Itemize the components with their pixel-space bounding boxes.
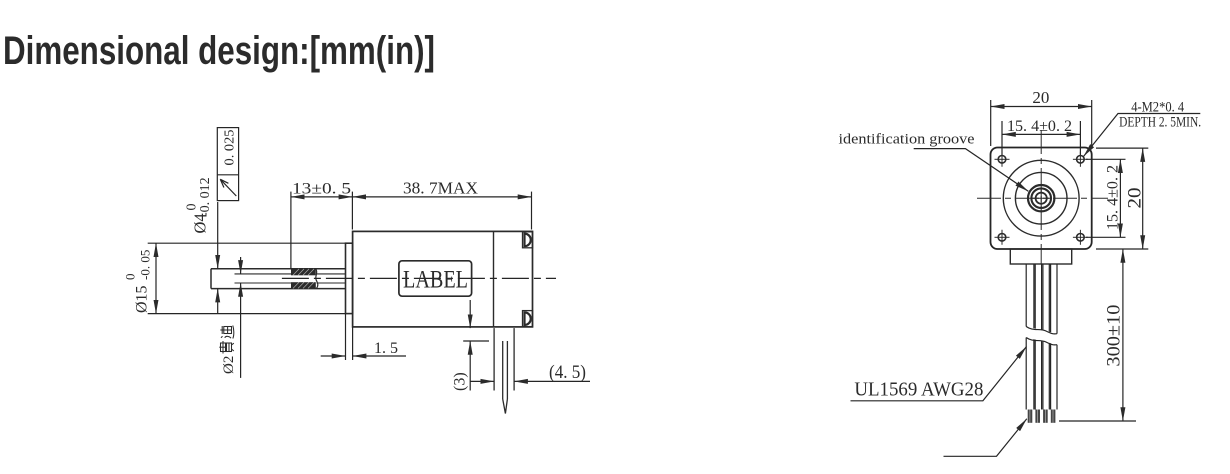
svg-text:(3): (3) <box>452 372 469 391</box>
svg-text:Ø2: Ø2 <box>221 356 237 374</box>
svg-text:20: 20 <box>1032 88 1049 107</box>
front plate <box>346 243 353 313</box>
tolerance frame (circular runout 0.025) <box>217 128 238 201</box>
motor body <box>353 231 533 327</box>
concentric circles <box>1003 160 1079 236</box>
dim 20 top <box>991 100 1092 146</box>
dimension (4.5) <box>470 380 590 382</box>
dim 20 right <box>1096 148 1148 249</box>
shaft outline <box>211 268 346 270</box>
knurl break curve <box>316 269 318 289</box>
dimension Ø15 <box>148 243 346 313</box>
label Ø4 0/-0.012 (rotated) <box>185 177 214 233</box>
svg-text:identification groove: identification groove <box>839 132 975 148</box>
dimension 13±0.5 <box>291 192 353 269</box>
svg-text:13±0. 5: 13±0. 5 <box>292 181 351 198</box>
svg-text:-0. 05: -0. 05 <box>138 250 153 280</box>
body separator line <box>493 231 495 327</box>
shaft through-hole lines <box>235 273 292 275</box>
svg-text:38. 7MAX: 38. 7MAX <box>403 179 478 198</box>
dim 15.4±0.2 top <box>1002 121 1080 155</box>
svg-text:(4. 5): (4. 5) <box>549 362 586 383</box>
dim 300±10 <box>1059 249 1136 421</box>
svg-text:0: 0 <box>123 274 138 281</box>
center line horizontal <box>282 277 556 279</box>
Ø4 leader/arrows <box>217 202 219 314</box>
svg-text:0. 025: 0. 025 <box>223 130 238 166</box>
rear notch bottom <box>523 311 533 327</box>
square flange <box>991 148 1092 250</box>
wire stripped tips <box>1028 410 1056 423</box>
svg-text:20: 20 <box>1125 188 1146 209</box>
svg-text:1. 5: 1. 5 <box>374 340 398 357</box>
dim 15.4±0.2 right <box>1086 159 1126 237</box>
svg-text:15. 4±0. 2: 15. 4±0. 2 <box>1105 165 1122 230</box>
wires top section <box>1026 264 1057 334</box>
wires bottom section <box>1026 338 1057 410</box>
screw holes with crosses <box>995 152 1088 245</box>
svg-text:UL1569 AWG28: UL1569 AWG28 <box>854 379 983 401</box>
dimension 38.7MAX <box>352 192 531 230</box>
bottom stub & pin <box>494 328 514 413</box>
svg-text:Ø15: Ø15 <box>134 285 151 313</box>
svg-text:-0. 012: -0. 012 <box>198 177 213 217</box>
label Ø15 0/-0.05 (rotated) <box>123 250 153 313</box>
dimension 1.5 <box>321 314 406 360</box>
center lines <box>1040 130 1042 264</box>
LABEL box <box>399 261 472 296</box>
Ø2 leader/arrows <box>240 257 242 378</box>
leader: bottom wires <box>944 419 1027 457</box>
svg-text:300±10: 300±10 <box>1104 305 1125 367</box>
knurl hatch texture <box>293 269 314 289</box>
wire exit block <box>1010 249 1071 264</box>
svg-text:15. 4±0. 2: 15. 4±0. 2 <box>1007 118 1072 135</box>
svg-text:DEPTH 2. 5MIN.: DEPTH 2. 5MIN. <box>1119 115 1201 131</box>
shaft knurl bands <box>291 269 316 289</box>
rear notch top <box>523 232 533 248</box>
svg-text:LABEL: LABEL <box>403 267 468 294</box>
label Ø2贯通 (rotated, CJK drawn as paths) <box>219 326 237 375</box>
dimension (3) <box>463 300 489 391</box>
svg-text:Dimensional design:[mm(in)]: Dimensional design:[mm(in)] <box>3 29 435 73</box>
